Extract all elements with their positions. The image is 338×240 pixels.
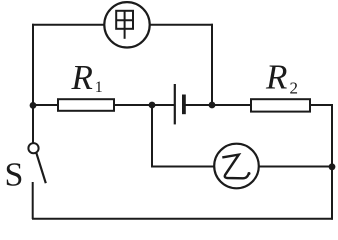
node dot on left rail: [30, 102, 37, 109]
wire top horizontal right of meter: [150, 24, 214, 26]
wire right rail vertical: [331, 104, 333, 220]
battery long plate: [174, 84, 176, 124]
switch S pivot circle: [28, 143, 38, 153]
resistor R2 box: [251, 99, 310, 111]
meter 乙 circle: [214, 144, 259, 189]
resistor R1 box: [58, 99, 114, 111]
svg-text:R: R: [265, 58, 287, 97]
meter 乙 character glyph: [222, 155, 249, 179]
svg-text:2: 2: [290, 79, 299, 98]
meter 乙 glyph hook tip: [248, 172, 251, 175]
wire switch lower lead: [32, 182, 34, 219]
wire top-left vertical: [32, 24, 34, 143]
meter 甲 character glyph: [116, 11, 133, 39]
wire top horizontal left of meter: [32, 24, 105, 26]
meter 甲 circle: [104, 2, 149, 47]
switch S blade: [36, 153, 46, 183]
wire bottom horizontal: [32, 218, 333, 220]
svg-text:1: 1: [95, 79, 103, 96]
wire middle row R2 to right rail: [310, 104, 333, 106]
wire middle row R1 to battery: [114, 104, 174, 106]
svg-text:S: S: [5, 157, 24, 194]
wire 乙 branch horizontal left: [151, 166, 215, 168]
wire node A down to meter 乙 branch: [151, 104, 153, 167]
wire 乙 branch horizontal right: [259, 166, 333, 168]
node A dot (left of battery): [149, 102, 156, 109]
battery short thick plate: [182, 95, 186, 115]
wire top-right vertical down to node B: [211, 24, 213, 105]
svg-text:R: R: [71, 58, 93, 97]
node dot on right rail: [329, 163, 336, 170]
node B dot (right of battery): [209, 102, 216, 109]
wire middle row battery to R2: [186, 104, 252, 106]
wire middle row from node at left rail to R1: [32, 104, 58, 106]
